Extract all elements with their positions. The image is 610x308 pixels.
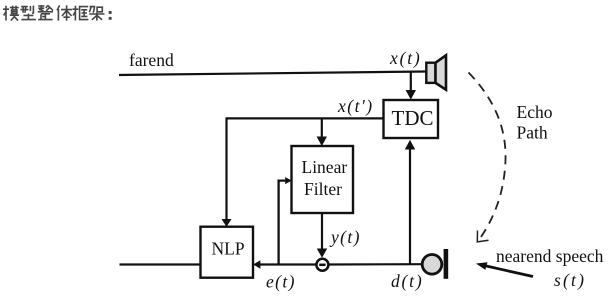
svg-text:x(t): x(t) xyxy=(389,48,422,68)
char 整 xyxy=(38,5,53,20)
wire NLP output to left xyxy=(120,263,201,265)
char 体 xyxy=(57,5,72,20)
speaker icon (loudspeaker) xyxy=(426,55,446,89)
svg-text:Path: Path xyxy=(517,123,548,143)
block Linear Filter xyxy=(292,146,354,213)
title 模型整体框架: (hand-drawn CJK strokes) xyxy=(3,5,112,21)
wire d(t) up with arrow into TDC bottom xyxy=(405,140,415,264)
summing node (minus) xyxy=(316,259,328,271)
svg-text:nearend speech: nearend speech xyxy=(496,246,604,266)
svg-text:TDC: TDC xyxy=(392,106,434,130)
svg-text:Linear: Linear xyxy=(302,157,348,177)
arrow nearend speech into mic xyxy=(476,262,533,276)
wire feedback from e(t) line up into Linear Filter left xyxy=(279,177,292,264)
char 模 xyxy=(3,6,19,21)
svg-text:d(t): d(t) xyxy=(391,271,423,291)
wire branch down with arrow into Linear Filter top xyxy=(317,118,327,146)
wire junction down with arrow into NLP top xyxy=(222,117,232,226)
wire summing node to NLP with arrow (e(t)) xyxy=(253,260,316,269)
char 型 xyxy=(20,6,36,20)
svg-text:NLP: NLP xyxy=(212,239,245,259)
svg-text:farend: farend xyxy=(129,50,174,70)
wire farend line xyxy=(119,72,426,76)
svg-text:x(t′): x(t′) xyxy=(337,96,374,116)
block NLP xyxy=(201,227,254,278)
char 框 xyxy=(72,6,88,21)
svg-text:Echo: Echo xyxy=(517,102,553,122)
svg-text:s(t): s(t) xyxy=(554,270,586,290)
wire summing node to microphone (d(t) segment) xyxy=(329,263,425,265)
label Echo Path xyxy=(517,102,553,143)
svg-text:e(t): e(t) xyxy=(266,272,296,292)
char 架 xyxy=(89,7,104,21)
microphone icon xyxy=(422,249,446,279)
wire x(t) drop with arrow into TDC top xyxy=(406,72,416,100)
svg-text:y(t): y(t) xyxy=(329,227,361,247)
svg-text:Filter: Filter xyxy=(304,179,342,199)
colon of title xyxy=(109,11,112,20)
wire Linear Filter bottom to summing node with arrow xyxy=(317,213,327,258)
block TDC xyxy=(384,100,439,138)
wire TDC left to junction (x(t') line) xyxy=(227,117,384,119)
echo path dashed curve with open arrowhead xyxy=(469,73,506,242)
